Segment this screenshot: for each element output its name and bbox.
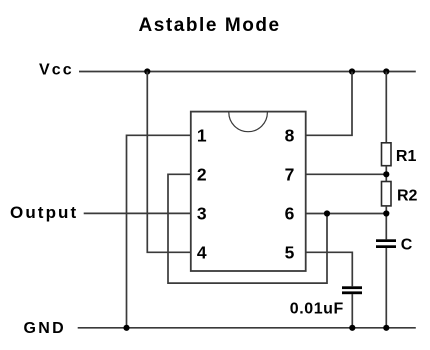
wire pin 1 to GND rail [127,135,191,327]
svg-text:5: 5 [285,243,295,263]
junction GND / C2 [349,325,355,331]
svg-text:R2: R2 [397,188,418,205]
wire pin 6 to R2/C junction [306,213,387,215]
wire pin 2 to pin 6 (trigger-threshold) [168,174,327,283]
svg-text:3: 3 [197,204,207,224]
svg-text:4: 4 [197,243,207,263]
resistor R2 [382,182,392,206]
svg-text:7: 7 [285,164,295,184]
wire Vcc to R1 top [385,72,387,143]
IC U1 555 timer body [191,112,306,271]
wire pin 7 to R1/R2 junction [306,173,387,175]
svg-text:8: 8 [285,125,295,145]
svg-text:2: 2 [197,164,207,184]
svg-text:1: 1 [197,125,207,145]
wire Output to pin 3 [84,212,191,214]
junction Vcc / R1 branch [383,68,389,74]
junction pin 6 / trigger branch [324,210,330,216]
IC notch [229,112,268,131]
junction GND / C [383,325,389,331]
capacitor C2 0.01uF top plate [342,286,362,289]
wire R1 to R2 [385,166,387,182]
junction R1/R2/pin7 [383,171,389,177]
wire GND rail [78,327,416,329]
wire C to GND rail [385,248,387,328]
junction Vcc / pin8 branch [349,68,355,74]
wire Vcc to pin 4 (reset) [147,72,191,253]
junction Vcc / pin4 branch [144,68,150,74]
svg-text:0.01uF: 0.01uF [290,301,344,318]
wire pin 5 to bypass capacitor [306,252,353,286]
wire Vcc to pin 8 [306,72,352,136]
capacitor C2 0.01uF bottom plate [342,291,362,294]
junction GND / pin1 [123,325,129,331]
junction R2/C/pin6 [383,210,389,216]
capacitor C top plate [376,239,396,242]
capacitor C bottom plate [376,245,396,248]
svg-text:C: C [401,236,413,253]
wire R2 to capacitor C [385,206,387,239]
resistor R1 [382,143,392,166]
svg-text:6: 6 [285,204,295,224]
wire C2 to GND rail [351,294,353,328]
wire Vcc rail [79,71,416,73]
svg-text:Astable Mode: Astable Mode [139,15,281,36]
svg-text:R1: R1 [396,148,417,165]
svg-text:Output: Output [10,203,78,222]
svg-text:Vcc: Vcc [39,62,74,79]
svg-text:GND: GND [24,320,66,337]
